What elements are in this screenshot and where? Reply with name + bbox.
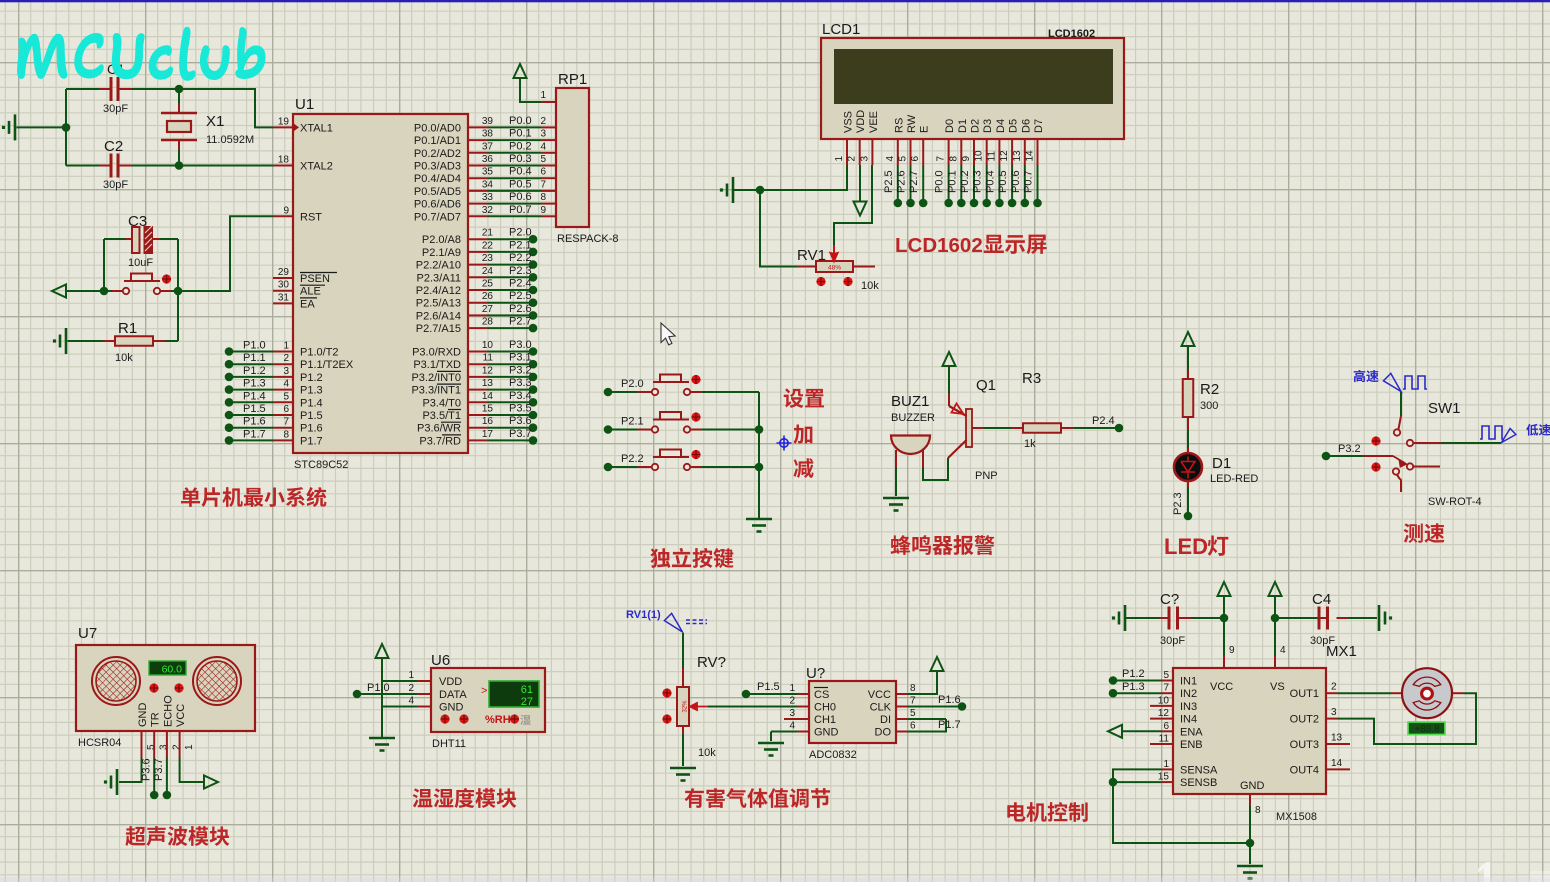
svg-text:MX1: MX1 <box>1326 643 1357 660</box>
svg-text:P2.3: P2.3 <box>509 265 532 277</box>
U1 pin P1.1 with net label <box>225 352 354 371</box>
svg-text:RV1(1): RV1(1) <box>626 609 661 621</box>
svg-text:P1.3: P1.3 <box>243 378 266 390</box>
svg-text:P3.6: P3.6 <box>141 758 153 781</box>
svg-text:P0.4/AD4: P0.4/AD4 <box>414 173 461 185</box>
svg-text:4: 4 <box>408 696 414 707</box>
U7 left transducer <box>92 657 140 705</box>
svg-text:12: 12 <box>482 365 494 376</box>
svg-text:10: 10 <box>1158 695 1170 706</box>
RP1 pin 8 stub <box>541 203 556 205</box>
svg-text:30: 30 <box>278 280 290 291</box>
svg-text:3: 3 <box>1331 707 1337 718</box>
svg-text:P2.2: P2.2 <box>509 252 532 264</box>
svg-text:P0.2: P0.2 <box>509 140 532 152</box>
svg-text:37: 37 <box>482 141 494 152</box>
svg-text:P0.4: P0.4 <box>984 170 996 193</box>
selection markers U6 <box>440 714 449 723</box>
wire Q1 base to R3 <box>984 427 1011 429</box>
U7 pin VCC <box>175 704 195 757</box>
svg-text:LED: LED <box>1164 534 1208 559</box>
power arrow (DHT11) <box>376 644 389 738</box>
svg-text:X1: X1 <box>206 113 224 130</box>
svg-text:P3.2: P3.2 <box>1338 443 1361 455</box>
push button P2.0 <box>604 375 759 397</box>
label 蜂鸣器报警 <box>891 535 995 555</box>
svg-text:P3.4: P3.4 <box>509 390 532 402</box>
svg-text:OUT3: OUT3 <box>1290 739 1319 751</box>
U1 pin XTAL1 <box>273 116 333 134</box>
U1 pin P1.4 with net label <box>225 390 323 409</box>
svg-text:%RH: %RH <box>485 714 511 726</box>
svg-text:P1.2: P1.2 <box>243 365 266 377</box>
svg-text:4: 4 <box>1280 645 1286 656</box>
resistor R1 <box>53 320 178 364</box>
svg-text:8: 8 <box>948 156 959 162</box>
svg-text:4: 4 <box>283 379 289 390</box>
svg-text:P1.5: P1.5 <box>757 681 780 693</box>
svg-text:VCC: VCC <box>175 704 187 727</box>
U1 pin P3.2 with net label <box>411 364 537 384</box>
svg-text:D4: D4 <box>995 119 1007 133</box>
svg-text:13: 13 <box>1012 150 1023 162</box>
svg-text:P3.2: P3.2 <box>509 364 532 376</box>
voltage probe (low speed) <box>1502 429 1516 443</box>
svg-text:RP1: RP1 <box>558 71 587 88</box>
svg-text:RST: RST <box>300 211 322 223</box>
svg-text:17: 17 <box>482 429 494 440</box>
svg-text:P2.0/A8: P2.0/A8 <box>422 234 461 246</box>
svg-text:P0.3: P0.3 <box>509 153 532 165</box>
svg-text:P2.5: P2.5 <box>883 170 895 193</box>
U1 pin P1.3 with net label <box>225 378 323 397</box>
svg-text:9: 9 <box>283 205 289 216</box>
svg-text:7: 7 <box>1163 683 1169 694</box>
svg-text:LCD1: LCD1 <box>822 21 860 38</box>
svg-text:11.0592M: 11.0592M <box>206 134 254 146</box>
svg-text:P0.5: P0.5 <box>509 178 532 190</box>
RP1 pin 6 stub <box>541 177 556 179</box>
svg-text:P0.0/AD0: P0.0/AD0 <box>414 122 461 134</box>
svg-text:ENB: ENB <box>1180 739 1203 751</box>
svg-text:P1.6: P1.6 <box>243 416 266 428</box>
wire SENSA <box>1113 769 1161 778</box>
svg-text:P3.6: P3.6 <box>509 415 532 427</box>
svg-text:11: 11 <box>986 151 997 162</box>
svg-text:14: 14 <box>1025 150 1036 162</box>
svg-text:PNP: PNP <box>975 470 998 482</box>
junction left <box>62 123 71 132</box>
svg-text:39: 39 <box>482 116 494 127</box>
motor driver MX1 MX1508 body <box>1173 643 1357 823</box>
selection marker (button P2.0) <box>691 375 700 384</box>
svg-text:CS: CS <box>814 689 829 701</box>
svg-text:P3.2/INT0: P3.2/INT0 <box>411 372 461 384</box>
wire R1 to junction <box>177 291 179 341</box>
wire buzzer right to Q1 collector <box>923 458 948 480</box>
svg-text:P0.2/AD2: P0.2/AD2 <box>414 148 461 160</box>
wire top to pin19 elbow <box>179 89 273 127</box>
svg-text:R3: R3 <box>1022 370 1041 387</box>
U1 pin P3.7 with net label <box>419 428 537 448</box>
U7 pin TR <box>150 712 170 757</box>
svg-text:SW-ROT-4: SW-ROT-4 <box>1428 496 1482 508</box>
svg-text:P3.5/T1: P3.5/T1 <box>422 410 461 422</box>
svg-text:DHT11: DHT11 <box>432 738 466 750</box>
U1 pin P0.4 wire to RP1 <box>414 166 547 186</box>
U7 pin ECHO <box>162 695 182 757</box>
U7 pin GND <box>137 703 157 758</box>
svg-text:D0: D0 <box>944 119 956 133</box>
svg-text:P2.3: P2.3 <box>1172 492 1184 515</box>
svg-text:IN1: IN1 <box>1180 676 1197 688</box>
svg-text:P3.1/TXD: P3.1/TXD <box>413 359 461 371</box>
svg-text:U7: U7 <box>78 625 97 642</box>
svg-text:P1.6: P1.6 <box>938 694 961 706</box>
RP1 pin 3 stub <box>541 139 556 141</box>
label 减 <box>793 458 813 478</box>
RP1 pin 7 stub <box>541 190 556 192</box>
U? pin 8 VCC with power arrow <box>868 657 944 701</box>
svg-text:P0.7: P0.7 <box>509 204 532 216</box>
svg-text:27: 27 <box>521 696 533 708</box>
U6 pin 1 VDD <box>382 670 462 688</box>
power arrow (MX VS) <box>1269 582 1282 656</box>
LCD pin 14 D7 <box>1025 119 1046 165</box>
svg-text:HCSR04: HCSR04 <box>78 737 121 749</box>
svg-text:SENSA: SENSA <box>1180 764 1218 776</box>
LCD pin 2 VDD <box>847 110 868 165</box>
LCD pin 1 VSS <box>834 111 855 165</box>
crystal X1 <box>161 89 254 166</box>
U1 pin P0.1 wire to RP1 <box>414 128 547 148</box>
svg-text:P1.2: P1.2 <box>1122 668 1145 680</box>
node P1.3 <box>1109 681 1161 698</box>
svg-text:U?: U? <box>806 665 825 682</box>
svg-text:6: 6 <box>1163 721 1169 732</box>
svg-text:P2.4/A12: P2.4/A12 <box>416 285 461 297</box>
svg-text:IN3: IN3 <box>1180 701 1197 713</box>
svg-text:P1.3: P1.3 <box>300 385 323 397</box>
svg-text:1: 1 <box>408 670 414 681</box>
svg-text:10: 10 <box>482 340 494 351</box>
voltage probe (RV1 wiper) <box>664 613 707 632</box>
svg-text:EA: EA <box>300 298 315 310</box>
wire gnd junction down to RV1 <box>760 190 797 267</box>
junction button bus 1 <box>755 425 764 434</box>
pulse waveform (high speed) <box>1403 376 1427 389</box>
ground (MX) <box>1237 865 1263 868</box>
svg-text:P2.2: P2.2 <box>621 453 644 465</box>
svg-text:3: 3 <box>789 708 795 719</box>
svg-text:VDD: VDD <box>439 676 462 688</box>
svg-text:31: 31 <box>278 292 290 303</box>
label 独立按键 <box>650 548 733 568</box>
U? pin 1 CS <box>789 683 829 701</box>
svg-text:32: 32 <box>482 205 494 216</box>
LCD pin 4 RS <box>885 118 906 165</box>
U1 pin PSEN <box>273 267 337 285</box>
svg-text:P0.3/AD3: P0.3/AD3 <box>414 161 461 173</box>
svg-text:1: 1 <box>184 744 195 750</box>
U6 %RH indicator <box>485 714 531 726</box>
svg-text:9: 9 <box>1229 645 1235 656</box>
svg-text:P1.0: P1.0 <box>367 682 390 694</box>
svg-text:6: 6 <box>910 721 916 732</box>
svg-text:11: 11 <box>483 353 494 364</box>
MX pin 9 VCC <box>1224 645 1235 668</box>
MX pin 4 VS <box>1275 645 1286 668</box>
LCD display LCD1 LCD1602 body <box>821 21 1124 139</box>
svg-text:12: 12 <box>999 150 1010 162</box>
power arrow (MX VCC) <box>1218 582 1231 656</box>
capacitor C4 <box>1275 591 1392 647</box>
svg-text:P3.0/RXD: P3.0/RXD <box>412 347 461 359</box>
svg-text:LCD1602: LCD1602 <box>895 234 983 257</box>
LCD pin 8 D1 <box>948 119 969 165</box>
svg-text:R2: R2 <box>1200 381 1219 398</box>
svg-text:P0.0: P0.0 <box>934 170 946 193</box>
node P1.5 <box>742 681 797 698</box>
svg-text:21: 21 <box>482 228 494 239</box>
junction C1 right <box>175 85 184 94</box>
wire LCD VSS to ground <box>764 165 847 190</box>
svg-text:P0.6: P0.6 <box>509 191 532 203</box>
potentiometer RV1 10k <box>797 245 879 292</box>
svg-text:P1.3: P1.3 <box>1122 681 1145 693</box>
svg-text:C?: C? <box>1160 591 1179 608</box>
svg-text:SW1: SW1 <box>1428 400 1461 417</box>
wire DHT11 DATA <box>361 693 417 695</box>
capacitor C3 electrolytic <box>104 213 178 269</box>
svg-text:35: 35 <box>482 167 494 178</box>
RP1 pin 2 stub <box>541 126 556 128</box>
svg-text:OUT1: OUT1 <box>1290 688 1319 700</box>
svg-text:3: 3 <box>159 744 170 750</box>
label LCD1602显示屏 <box>895 234 1047 257</box>
svg-text:CH1: CH1 <box>814 714 836 726</box>
svg-text:E: E <box>919 126 931 133</box>
svg-text:CH0: CH0 <box>814 702 836 714</box>
junction LCD gnd <box>756 186 765 195</box>
MCU U1 STC89C52 body <box>293 96 468 471</box>
voltage probe (high speed) <box>1383 373 1401 391</box>
svg-text:1k: 1k <box>1024 438 1036 450</box>
U1 pin P0.2 wire to RP1 <box>414 140 547 160</box>
svg-text:P2.3/A11: P2.3/A11 <box>417 272 461 284</box>
svg-text:38: 38 <box>482 129 494 140</box>
svg-text:RS: RS <box>893 118 905 133</box>
U1 pin P3.5 with net label <box>422 403 537 423</box>
svg-text:4: 4 <box>540 141 546 152</box>
svg-text:5: 5 <box>910 708 916 719</box>
svg-text:14: 14 <box>482 391 494 402</box>
svg-text:GND: GND <box>137 703 149 728</box>
svg-text:P2.5/A13: P2.5/A13 <box>416 298 461 310</box>
wire C3 right down <box>177 239 179 291</box>
selection markers RV? <box>662 688 671 697</box>
svg-text:VS: VS <box>1270 681 1285 693</box>
wire probe to RV? <box>682 633 684 669</box>
svg-text:2: 2 <box>847 156 858 162</box>
label 低速 (blue) <box>1526 424 1550 436</box>
svg-text:D7: D7 <box>1033 119 1045 133</box>
svg-text:ALE: ALE <box>300 286 321 298</box>
wire RV? wiper to CH0 <box>708 706 797 708</box>
svg-text:10k: 10k <box>115 352 133 364</box>
U1 pin P0.7 wire to RP1 <box>414 204 547 224</box>
wire U7 ECHO to P3.7 <box>153 757 171 799</box>
junction reset left <box>100 287 109 296</box>
svg-text:P1.1: P1.1 <box>243 352 266 364</box>
RP1 pin 5 stub <box>541 165 556 167</box>
svg-text:8: 8 <box>283 429 289 440</box>
svg-text:5: 5 <box>1163 670 1169 681</box>
U1 pin P1.6 with net label <box>225 416 323 435</box>
power arrow (buzzer) <box>943 352 956 394</box>
svg-text:P3.6/WR: P3.6/WR <box>417 423 461 435</box>
svg-text:P3.4/T0: P3.4/T0 <box>422 397 461 409</box>
svg-text:10uF: 10uF <box>128 257 153 269</box>
svg-text:P2.5: P2.5 <box>509 290 532 302</box>
U1 pin P2.5 with net label <box>416 290 538 310</box>
svg-text:ADC0832: ADC0832 <box>809 749 857 761</box>
svg-text:33: 33 <box>482 192 494 203</box>
svg-text:11: 11 <box>1159 734 1170 745</box>
resistor R3 1k <box>1011 370 1074 450</box>
svg-text:C4: C4 <box>1312 591 1331 608</box>
svg-text:5: 5 <box>146 744 157 750</box>
LCD pin 3 VEE <box>859 111 880 165</box>
U1 pin RST <box>273 205 322 223</box>
U1 pin P1.5 with net label <box>225 403 323 422</box>
U1 pin P0.3 wire to RP1 <box>414 153 547 173</box>
svg-text:D3: D3 <box>982 119 994 133</box>
svg-text:P0.5/AD5: P0.5/AD5 <box>414 186 461 198</box>
LCD pin 12 D5 <box>999 119 1020 165</box>
svg-text:P1.4: P1.4 <box>243 390 266 402</box>
svg-text:30pF: 30pF <box>103 103 128 115</box>
U1 pin EA <box>273 292 317 310</box>
svg-text:P2.4: P2.4 <box>1092 415 1115 427</box>
svg-text:7: 7 <box>936 156 947 162</box>
svg-text:STC89C52: STC89C52 <box>294 459 348 471</box>
wire R2 to D1 <box>1187 429 1189 448</box>
U? pin 7 CLK to P1.6 <box>870 694 967 714</box>
svg-text:OUT2: OUT2 <box>1290 714 1319 726</box>
svg-text:36: 36 <box>482 154 494 165</box>
wire OUT1 to motor <box>1338 692 1391 694</box>
svg-text:P0.6: P0.6 <box>1010 170 1022 193</box>
svg-text:29: 29 <box>278 267 290 278</box>
MX pin 2 OUT1 <box>1290 682 1338 701</box>
transistor Q1 PNP <box>948 377 998 482</box>
svg-text:P0.6/AD6: P0.6/AD6 <box>414 199 461 211</box>
selection marker (reset button) <box>162 274 171 283</box>
wire U7 TR to P3.6 <box>141 757 159 799</box>
RP1 pin 4 stub <box>541 152 556 154</box>
svg-text:P3.1: P3.1 <box>509 352 532 364</box>
ground (buttons) <box>746 518 772 521</box>
U1 pin ALE <box>273 280 325 298</box>
svg-text:5: 5 <box>898 156 909 162</box>
U1 pin P3.6 with net label <box>417 415 537 435</box>
svg-text:8: 8 <box>540 192 546 203</box>
svg-text:P1.1/T2EX: P1.1/T2EX <box>300 359 354 371</box>
ground (ADC) <box>758 742 784 745</box>
svg-text:VEE: VEE <box>868 111 880 133</box>
U? pin 6 DO to P1.7 <box>875 719 961 739</box>
capacitor C? <box>1112 591 1224 647</box>
svg-text:P3.7: P3.7 <box>509 428 532 440</box>
junction button bus 2 <box>755 463 764 472</box>
buzzer BUZ1 <box>891 393 935 467</box>
svg-text:3: 3 <box>540 129 546 140</box>
svg-text:8: 8 <box>1255 805 1261 816</box>
svg-text:P0.7/AD7: P0.7/AD7 <box>414 211 461 223</box>
node P3.2 <box>1322 443 1363 460</box>
node P2.3 <box>1172 492 1192 520</box>
svg-text:23: 23 <box>482 253 494 264</box>
label 超声波模块 <box>125 826 229 846</box>
U7 distance readout 60.0 <box>149 661 186 676</box>
svg-text:IN4: IN4 <box>1180 714 1197 726</box>
svg-text:P3.3/INT1: P3.3/INT1 <box>411 385 461 397</box>
DHT11 module U6 body <box>431 652 545 750</box>
wire OUT2 to motor loop <box>1338 693 1476 744</box>
svg-text:P0.0: P0.0 <box>509 115 532 127</box>
svg-text:1: 1 <box>1163 759 1169 770</box>
svg-text:30pF: 30pF <box>103 179 128 191</box>
LCD pin 11 D4 <box>986 119 1007 165</box>
label 高速 (blue) <box>1354 370 1379 382</box>
RP1 pin 9 stub <box>541 215 556 217</box>
MX pin 6 ENA <box>1161 721 1203 739</box>
svg-text:>: > <box>481 685 487 697</box>
ground terminal (LCD VSS) <box>732 177 735 203</box>
selection markers SW1 <box>1371 436 1380 445</box>
svg-text:7: 7 <box>540 179 546 190</box>
U1 pin P2.2 with net label <box>416 252 538 272</box>
svg-text:P1.7: P1.7 <box>938 719 961 731</box>
svg-text:P2.1/A9: P2.1/A9 <box>422 247 461 259</box>
junction gnd bus <box>1246 839 1255 848</box>
U1 pin P2.1 with net label <box>422 239 537 259</box>
svg-text:2: 2 <box>171 744 182 750</box>
U1 pin P2.6 with net label <box>416 303 538 323</box>
svg-text:61: 61 <box>521 684 533 696</box>
potentiometer RV? 10k <box>677 654 726 759</box>
svg-text:P1.7: P1.7 <box>300 435 323 447</box>
MX pin 5 IN1 <box>1161 670 1197 688</box>
svg-text:2: 2 <box>408 683 414 694</box>
svg-text:60.0: 60.0 <box>162 664 183 676</box>
ground terminal (crystal net) <box>2 114 66 140</box>
wire to pin18 <box>179 165 273 167</box>
svg-text:P2.7/A15: P2.7/A15 <box>416 323 461 335</box>
U1 pin P2.4 with net label <box>416 278 538 298</box>
U6 pin 2 DATA <box>408 683 467 701</box>
svg-text:9: 9 <box>961 156 972 162</box>
svg-text:D1: D1 <box>957 119 969 133</box>
svg-text:26: 26 <box>482 291 494 302</box>
LCD data wire P0.7 <box>1023 165 1042 207</box>
ground (RV?) <box>670 767 696 770</box>
svg-text:4: 4 <box>789 721 795 732</box>
svg-text:2: 2 <box>1331 682 1337 693</box>
svg-text:SENSB: SENSB <box>1180 777 1217 789</box>
svg-text:VDD: VDD <box>855 110 867 133</box>
